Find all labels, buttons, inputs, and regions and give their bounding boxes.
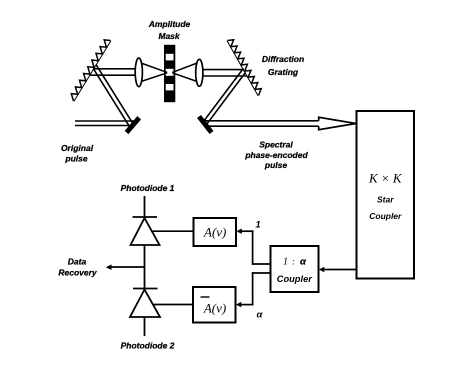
wire into A box — [240, 230, 253, 232]
svg-text:Original: Original — [61, 143, 94, 153]
filter box A(v) — [194, 218, 237, 246]
wire original pulse upper — [75, 120, 137, 122]
wire beam right lower — [198, 75, 248, 77]
svg-text:Photodiode 1: Photodiode 1 — [121, 183, 175, 193]
arrowhead into coupler — [319, 267, 325, 272]
svg-text:Recovery: Recovery — [58, 267, 98, 277]
lens right — [196, 59, 203, 86]
arrowhead data recovery — [106, 264, 112, 270]
svg-text:pulse: pulse — [64, 154, 87, 164]
wire D2 to Abar — [153, 304, 194, 306]
svg-text:Data: Data — [68, 256, 87, 266]
wire coupler stub upper — [252, 263, 271, 265]
photodiode D2 — [130, 289, 160, 337]
wire encoded pulse upper — [202, 120, 318, 122]
svg-text:A(v): A(v) — [203, 225, 226, 240]
label Diffraction Grating — [262, 54, 304, 77]
svg-text:1: 1 — [255, 220, 260, 231]
mirror left — [127, 118, 140, 133]
label Spectral phase-encoded pulse — [244, 140, 308, 170]
svg-text:Diffraction: Diffraction — [262, 54, 304, 64]
arrowhead into A box — [236, 229, 242, 234]
svg-text:K × K: K × K — [368, 171, 403, 186]
wire beam converge lower — [140, 73, 168, 82]
wire beam diverge lower — [172, 73, 198, 82]
wire into Abar box — [240, 304, 254, 306]
svg-text:Coupler: Coupler — [277, 274, 314, 284]
arrowhead into Abar box — [236, 302, 242, 307]
mirror right — [199, 117, 212, 133]
wire vertical to Abar — [252, 272, 254, 305]
wire beam converge upper — [140, 63, 168, 73]
wire beam diag left 1 — [93, 69, 130, 128]
svg-text:Spectral: Spectral — [259, 140, 293, 150]
wire vertical to A — [252, 230, 254, 264]
amplitude mask — [164, 45, 175, 102]
lens left — [135, 58, 142, 87]
wire star coupler to 1:alpha coupler — [321, 269, 357, 271]
filter box Abar(v) — [193, 287, 236, 323]
wire beam diag right 1 — [203, 69, 243, 122]
block arrow into star coupler — [319, 117, 356, 129]
wire encoded pulse lower — [207, 125, 319, 127]
svg-text:pulse: pulse — [264, 160, 287, 170]
svg-text::: : — [292, 257, 295, 267]
label Original pulse — [61, 143, 94, 164]
svg-text:Star: Star — [377, 195, 394, 205]
svg-text:A(v): A(v) — [203, 301, 226, 316]
wire beam right upper — [198, 69, 244, 71]
diffraction grating left — [71, 40, 110, 101]
photodiode D1 — [131, 196, 160, 289]
K x K star coupler box — [357, 111, 415, 279]
wire beam diag right 2 — [206, 72, 246, 125]
label Data Recovery — [58, 256, 98, 277]
wire beam left upper — [93, 68, 140, 70]
data recovery wire — [109, 266, 145, 268]
1:alpha coupler box — [271, 246, 319, 292]
diffraction grating right — [228, 40, 262, 96]
svg-text:Mask: Mask — [158, 31, 181, 41]
wire beam left lower — [90, 74, 141, 76]
svg-text:Coupler: Coupler — [369, 211, 402, 221]
wire beam diag left 2 — [96, 64, 134, 124]
wire original pulse lower — [75, 125, 133, 127]
svg-text:α: α — [257, 310, 264, 321]
wire D1 to A — [151, 230, 194, 232]
svg-text:Amplitude: Amplitude — [148, 19, 191, 29]
svg-text:Grating: Grating — [268, 67, 299, 77]
wire beam diverge upper — [172, 63, 198, 73]
wire coupler stub lower — [252, 272, 271, 274]
label Amplitude Mask — [148, 19, 191, 41]
svg-text:1: 1 — [283, 257, 288, 268]
svg-text:phase-encoded: phase-encoded — [244, 150, 308, 160]
svg-text:Photodiode 2: Photodiode 2 — [121, 340, 175, 350]
